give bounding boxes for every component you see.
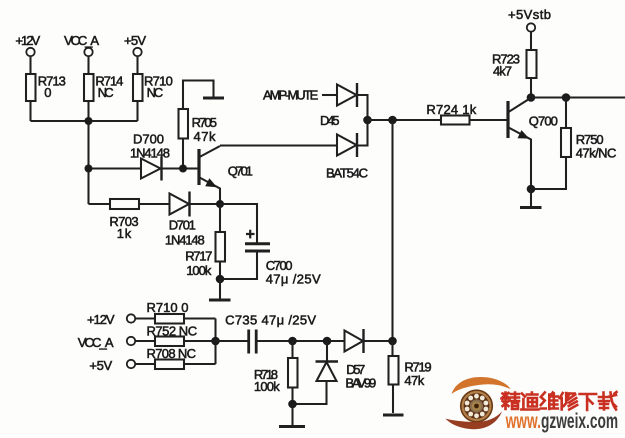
svg-text:VCC_A: VCC_A: [64, 33, 99, 48]
svg-text:47k: 47k: [404, 373, 424, 388]
resistor R703: [110, 199, 139, 209]
node R750 top: [562, 93, 571, 102]
watermark char xiu: [560, 393, 578, 410]
wire D700 anode feed: [89, 167, 142, 169]
watermark lower arc: [446, 412, 503, 430]
resistor R708: [155, 360, 184, 370]
svg-text:+5V: +5V: [89, 358, 112, 373]
resistor R713: [26, 74, 36, 101]
node R718 top: [288, 337, 297, 346]
wire: [87, 101, 89, 121]
svg-text:1N4148: 1N4148: [165, 232, 205, 247]
wire: [184, 317, 216, 319]
diode D45: [337, 83, 357, 107]
svg-text:NC: NC: [147, 85, 164, 100]
svg-text:www.gzweix.com: www.gzweix.com: [505, 410, 618, 433]
terminal +5Vstb: [527, 23, 535, 31]
svg-text:47k/NC: 47k/NC: [576, 146, 617, 161]
svg-text:D45: D45: [320, 113, 340, 128]
diode D700: [141, 157, 162, 181]
terminal VCC_A: [84, 48, 92, 56]
svg-text:NC: NC: [98, 85, 114, 100]
wire AMP-MUTE lead: [322, 94, 337, 96]
svg-text:BAT54C: BAT54C: [326, 166, 368, 181]
node Q700 emitter bottom: [527, 185, 536, 194]
watermark chinese text 精通维修下载: [502, 392, 617, 410]
wire bus joining R713 R714 R710: [31, 120, 138, 122]
wire ground stem: [530, 189, 532, 206]
svg-text:R713: R713: [38, 73, 66, 88]
watermark char tong: [521, 393, 538, 410]
wire R705 bottom lead: [182, 139, 184, 169]
wire C700 top branch: [220, 204, 257, 244]
svg-text:D700: D700: [133, 132, 164, 147]
terminal +12V (bottom): [127, 314, 135, 322]
diode D57 (shunt half, vertical): [293, 341, 339, 404]
transistor Q700: [508, 98, 531, 189]
ground (under R717): [209, 299, 231, 302]
svg-text:100k: 100k: [186, 263, 212, 278]
node bottom join: [211, 337, 220, 346]
svg-text:4k7: 4k7: [493, 64, 512, 79]
resistor R723: [527, 50, 537, 78]
wire: [184, 340, 216, 342]
diode BAT54C: [337, 133, 357, 157]
svg-text:1N4148: 1N4148: [130, 145, 170, 160]
svg-text:100k: 100k: [254, 379, 280, 394]
watermark char xia: [580, 394, 597, 410]
svg-text:47k: 47k: [194, 129, 217, 144]
wire: [139, 203, 170, 205]
node Q700 collector: [527, 93, 536, 102]
node left-vert / D700 branch: [85, 165, 93, 173]
svg-text:Q700: Q700: [529, 114, 558, 129]
wire D45 cathode to junction: [357, 95, 368, 120]
terminal +5V: [133, 48, 141, 56]
node mute rail: [388, 116, 397, 125]
wire: [136, 56, 138, 74]
wire C700 bottom branch: [220, 251, 257, 279]
svg-text:C735 47μ /25V: C735 47μ /25V: [225, 313, 316, 328]
resistor R705: [179, 109, 189, 139]
wire: [135, 363, 155, 365]
wire collector rail to right edge: [531, 96, 625, 98]
wire ground stem: [291, 404, 293, 425]
svg-text:Q701: Q701: [228, 163, 253, 178]
resistor R717: [216, 232, 226, 262]
watermark char wei: [541, 393, 558, 410]
node top bus: [85, 117, 93, 125]
wire to R703: [89, 203, 111, 205]
diode D701: [170, 192, 190, 217]
node R719 top: [388, 337, 397, 346]
svg-text:1k: 1k: [117, 226, 132, 241]
resistor R719: [389, 341, 399, 413]
node R717/C700 bottom: [216, 275, 225, 284]
ground (under Q700): [520, 206, 542, 209]
capacitor C735: [249, 330, 257, 354]
wire ground stem: [219, 279, 221, 299]
wire D57 cathode to rail: [364, 340, 393, 342]
svg-text:+12V: +12V: [15, 33, 40, 48]
ground (top): [203, 97, 224, 100]
svg-text:+5V: +5V: [124, 33, 146, 48]
node Q701 emitter: [216, 200, 224, 208]
svg-text:BAV99: BAV99: [345, 375, 376, 390]
resistor R718: [288, 341, 298, 404]
wire R724 to Q700 base: [470, 119, 509, 121]
resistor R710 (top): [133, 74, 143, 101]
svg-text:AMP-MUTE: AMP-MUTE: [263, 88, 319, 103]
svg-text:R752 NC: R752 NC: [147, 324, 198, 339]
wire R705 top elbow to ground: [183, 81, 214, 110]
resistor R752: [155, 337, 184, 347]
resistor R750: [531, 98, 571, 190]
svg-text:D701: D701: [169, 218, 196, 233]
svg-text:+5Vstb: +5Vstb: [508, 7, 551, 22]
wire joining bottom resistors: [214, 319, 216, 365]
ground (under R719): [383, 414, 404, 417]
resistor R724: [441, 116, 470, 125]
wire: [184, 363, 216, 365]
wire junction to R724: [368, 119, 442, 121]
wire to C735: [216, 340, 249, 342]
wire: [530, 32, 532, 50]
watermark lens: [460, 389, 493, 422]
terminal VCC_A (bottom): [127, 337, 135, 345]
svg-text:R717: R717: [185, 249, 212, 264]
wire C735 to D57: [256, 340, 344, 342]
svg-text:VCC_A: VCC_A: [78, 335, 114, 350]
node R718/D57 bottom: [288, 400, 297, 409]
svg-text:+12V: +12V: [87, 312, 115, 327]
svg-text:R724 1k: R724 1k: [426, 102, 476, 117]
watermark char zai: [599, 392, 617, 410]
watermark char jing: [502, 393, 520, 410]
wire: [190, 203, 221, 205]
capacitor C700: [245, 230, 270, 251]
wire: [162, 167, 184, 169]
svg-text:47μ /25V: 47μ /25V: [266, 271, 321, 286]
node base Q701: [179, 165, 187, 173]
wire: [136, 101, 138, 121]
svg-text:R710 0: R710 0: [147, 300, 189, 315]
svg-text:0: 0: [44, 85, 51, 100]
terminal +12V: [26, 48, 34, 56]
ground (under R718): [279, 425, 305, 428]
transistor Q701: [183, 146, 220, 204]
terminal +5V (bottom): [127, 360, 135, 368]
wire R723 bottom lead: [530, 78, 532, 98]
resistor R710 (bottom): [155, 314, 184, 324]
wire: [135, 317, 155, 319]
wire long vertical mute rail: [391, 120, 393, 341]
node diode junction: [363, 116, 372, 125]
wire: [87, 56, 89, 74]
wire BAT54C cathode to junction: [357, 120, 368, 146]
wire Q701 collector to BAT54C: [220, 144, 337, 146]
wire: [135, 340, 155, 342]
wire left vertical: [87, 121, 89, 204]
resistor R714: [84, 74, 94, 101]
wire R717 bottom lead: [219, 262, 221, 280]
wire R717 top lead: [219, 204, 221, 232]
svg-text:R705: R705: [192, 115, 217, 130]
wire: [29, 101, 31, 121]
svg-text:R708 NC: R708 NC: [147, 346, 197, 361]
watermark upper arc: [452, 377, 511, 394]
diode D57 (series half, horizontal): [345, 329, 364, 353]
node D57 top: [323, 337, 332, 346]
wire: [29, 56, 31, 74]
